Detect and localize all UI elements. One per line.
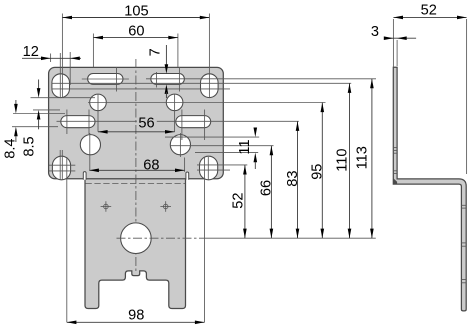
extension line x204.5 for dim 98 right: [204, 157, 206, 322]
corner hole bottom-left crosslines: [49, 164, 76, 166]
middle slot right end crosshairs: [181, 110, 183, 141]
extension line x209.4 for dim 105 right: [208, 14, 210, 98]
extension line y137.1 for dim 11 top: [165, 136, 259, 138]
side view hidden ticks right strip: [461, 205, 466, 282]
bend hidden line (dashed): [86, 183, 186, 185]
svg-text:52: 52: [421, 2, 437, 18]
svg-text:66: 66: [258, 180, 274, 196]
side view hidden ticks top strip: [393, 148, 397, 174]
dimension 56: [98, 115, 175, 134]
svg-text:113: 113: [355, 146, 371, 169]
plate bottom notch right: [186, 172, 189, 180]
dimension 66: [258, 146, 274, 239]
extension line x70.2 for dim 12 right: [69, 52, 71, 85]
top slot left centerline: [82, 78, 129, 80]
extension line y164.9 for dim 52: [197, 164, 247, 166]
small circle row2 right: [166, 94, 183, 111]
extension line x184.6 for dim 68 right: [184, 158, 186, 172]
extension line x93.4 for dim 60 left: [92, 34, 94, 68]
dimension 60: [93, 23, 177, 39]
corner holes lower crossline y88.9: [52, 88, 231, 90]
svg-text:68: 68: [143, 158, 159, 174]
corner hole bottom-left: [52, 156, 70, 180]
svg-text:8.5: 8.5: [22, 136, 38, 156]
side dimension 52: [393, 2, 466, 174]
extension line y113.5 for dim 8.4 top: [13, 113, 65, 115]
center mark right: [160, 201, 171, 212]
dimension 8.5: [22, 80, 41, 157]
side view bend corner fill: [393, 178, 397, 184]
extension line y109.9 for dim 8.5 bottom: [33, 109, 60, 111]
circle row4 left: [80, 135, 100, 155]
dimension 11: [237, 128, 257, 170]
dimension 52 vertical: [230, 165, 246, 238]
dimension 113: [355, 79, 374, 239]
extension line x53.2 for dim 12 left: [50, 54, 52, 63]
svg-text:56: 56: [138, 115, 154, 131]
svg-text:11: 11: [237, 139, 253, 154]
svg-text:60: 60: [128, 23, 144, 39]
plate bottom notch left: [83, 172, 86, 180]
side dimension 3: [371, 24, 416, 66]
big hole in body: [121, 223, 152, 254]
svg-text:110: 110: [334, 148, 350, 171]
dimension 95: [310, 103, 326, 239]
bracket body front view: [85, 179, 186, 309]
extension line x89.8 for dim 68 left: [89, 133, 91, 170]
svg-text:3: 3: [371, 24, 379, 40]
middle slot left: [61, 116, 95, 128]
center mark left: [101, 201, 112, 212]
middle slot left end crosshairs: [66, 110, 68, 135]
corner hole bottom-right vertical: [207, 157, 209, 180]
corner hole top-left: [52, 74, 70, 98]
extension line y145.7 for dim 66: [171, 145, 274, 147]
dimension 12: [22, 44, 81, 60]
svg-text:8.4: 8.4: [3, 138, 19, 158]
middle slot right: [176, 116, 211, 128]
extension line y126.7 for dim 8.4 bottom: [12, 126, 58, 128]
dimension 7: [147, 45, 168, 98]
dimension 98: [67, 308, 205, 325]
svg-text:12: 12: [23, 44, 39, 60]
side view Z-profile: [393, 67, 466, 311]
top slot right: [151, 74, 185, 85]
vertical centerline: [135, 59, 137, 272]
extension line y152.6 for dim 11 bottom: [195, 152, 258, 154]
extension line x177.9 for dim 60 right: [177, 34, 179, 68]
corner hole top-left inner vertical: [59, 53, 61, 98]
extension line y78.8 for dim 113: [146, 78, 376, 80]
dimension 105: [62, 4, 209, 20]
corner hole bottom-left verticals: [59, 150, 61, 180]
extension line y121.3 for dim 83: [57, 120, 299, 122]
dimension 68: [89, 158, 184, 174]
top slot left: [88, 74, 123, 85]
small circle row2 left: [90, 94, 107, 111]
svg-text:105: 105: [124, 4, 148, 20]
extension line x66.8 for dim 98 left: [66, 157, 68, 322]
circle row4 right vertical crosshair: [179, 133, 181, 157]
dimension 110: [334, 83, 351, 238]
extension line x174.6 for dim 56 right: [174, 94, 176, 132]
dimension 8.4: [3, 100, 19, 159]
extension line x98 for dim 56 left: [97, 94, 99, 132]
extension line y97.7 for dim 8.5 top: [31, 97, 96, 99]
top slot left end crosshair: [116, 67, 118, 92]
dimension 83: [285, 121, 301, 238]
svg-text:7: 7: [147, 48, 163, 56]
extension line y83.3 for dim 110: [52, 82, 352, 84]
extension line y102.5 for dim 95: [88, 102, 326, 104]
svg-text:98: 98: [128, 308, 144, 324]
svg-text:95: 95: [310, 164, 326, 180]
circle row4 right: [170, 135, 190, 155]
extension line x62.4 for dim 105 left: [61, 14, 63, 98]
corner hole bottom-right: [200, 156, 218, 180]
corner hole top-right: [201, 74, 219, 98]
svg-text:52: 52: [230, 192, 246, 208]
svg-text:83: 83: [285, 170, 301, 186]
mounting plate front view: [49, 67, 224, 178]
top slot right end crosshairs: [156, 72, 158, 88]
crossline y170.1 through corner hole bottom-right: [197, 169, 230, 171]
big hole centerline and dim baseline: [117, 237, 207, 239]
